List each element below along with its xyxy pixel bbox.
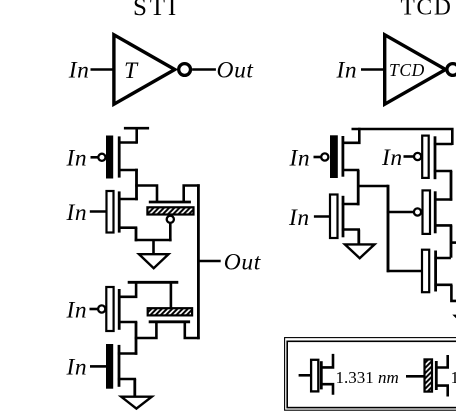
bubble QF1 gate <box>167 216 174 223</box>
svg-text:TCD: TCD <box>389 60 425 80</box>
transistor Q9 (thin-gate, TCD stack bottom) <box>422 250 452 293</box>
svg-text:Out: Out <box>217 58 254 84</box>
svg-text:In: In <box>66 146 88 172</box>
power rail VDD2 <box>352 129 453 145</box>
wire Q3 source up <box>119 281 136 297</box>
wire node N1 (Q1 drain to Q2 source) <box>135 169 138 201</box>
wire T5 source up <box>342 128 360 143</box>
op-amp U1 inverter triangle (STI) <box>114 35 175 104</box>
wire QF2 gate stub <box>170 281 173 309</box>
bubble Q8 gate <box>414 208 421 215</box>
wire In to Q3 <box>90 308 99 311</box>
wire FB1 right terminal <box>184 186 200 202</box>
wire In to Q4 <box>90 365 106 368</box>
bubble Q7 gate <box>414 153 421 160</box>
transistor QF2 hatched gate bar <box>148 308 192 315</box>
wire Q6 drain down <box>357 230 360 246</box>
svg-text:In: In <box>288 205 310 231</box>
wire ground drop <box>152 240 155 255</box>
bubble Q5 gate <box>321 153 328 160</box>
transistor L1 (legend, thin-gate) <box>299 354 333 395</box>
wire Q2 drain down <box>135 228 138 242</box>
transistor QF1 channel (feedback, horizontal) <box>149 201 191 204</box>
transistor Q1 (thick-gate PMOS, STI top) <box>106 136 138 179</box>
wire midnode branch <box>357 185 388 188</box>
wire QF2 left terminal <box>135 321 157 339</box>
wire rail node N3 (bottom half top rail) <box>128 281 179 284</box>
svg-text:T: T <box>124 58 139 84</box>
svg-text:Out: Out <box>224 249 261 275</box>
power rail VDD1 bar <box>124 127 149 130</box>
wire U2 input <box>361 68 386 71</box>
wire U1 input <box>91 68 116 71</box>
wire ground node N2 <box>135 239 172 242</box>
svg-text:In: In <box>289 145 311 171</box>
wire Q8 drain to Q9 source <box>450 225 453 257</box>
wire VDD1 stub <box>135 127 138 144</box>
bubble U1 output <box>179 64 191 76</box>
transistor QF2 channel (feedback 2, horizontal) <box>149 320 190 323</box>
legend box inner frame <box>287 341 456 407</box>
svg-text:In: In <box>68 58 90 84</box>
wire to Q8 gate <box>387 211 414 214</box>
transistor Q6 (thin-gate, TCD) <box>330 195 360 239</box>
wire In to Q5 <box>314 156 322 159</box>
transistor Q4 (thick-gate NMOS, STI bottom) <box>106 344 137 389</box>
svg-text:In: In <box>381 145 403 171</box>
svg-text:TCD: TCD <box>400 0 452 21</box>
svg-text:1.9: 1.9 <box>451 368 456 387</box>
wire In to Q6 <box>314 215 330 218</box>
wire to Q9 gate <box>387 270 422 273</box>
transistor Q5 (thick-gate PMOS, TCD) <box>330 135 359 178</box>
bubble Q1 gate <box>98 154 105 161</box>
transistor L2 (legend, hatched-gate) <box>406 355 448 397</box>
ground GND3 <box>345 244 375 258</box>
wire Out tap (TCD) <box>451 241 456 244</box>
svg-text:In: In <box>336 58 358 84</box>
svg-text:STI: STI <box>133 0 179 21</box>
svg-text:In: In <box>66 200 88 226</box>
wire QF2 right terminal <box>185 321 200 339</box>
ground GND4 (partial, clipped) <box>452 315 456 319</box>
legend box outer frame <box>285 338 456 411</box>
wire In to Q7 <box>404 155 415 158</box>
wire Out tap <box>198 260 220 263</box>
ground GND2 <box>121 397 152 409</box>
wire midnode vertical N5 <box>387 185 390 273</box>
wire U1 output <box>192 68 216 71</box>
wire In to Q2 <box>90 210 107 213</box>
wire node N4 (Q3 drain to Q4 source) <box>135 322 138 355</box>
wire Out rail <box>197 184 200 339</box>
wire Q7 drain to Q8 source <box>450 171 453 201</box>
wire node N5 (Q5 drain to Q6 source) <box>357 170 360 205</box>
transistor Q3 (thin-gate with bubble, STI lower PMOS) <box>106 287 137 331</box>
transistor Q7 (thin-gate, TCD stack top) <box>422 136 452 180</box>
svg-text:In: In <box>66 355 88 381</box>
wire QF1 gate stub <box>169 223 172 241</box>
bubble Q3 gate <box>98 305 105 312</box>
transistor Q2 (thin-gate, STI upper NMOS) <box>107 191 138 233</box>
wire Q9 drain down <box>451 285 456 301</box>
svg-text:In: In <box>66 297 88 323</box>
ground GND1 <box>139 254 169 268</box>
svg-text:1.331 nm: 1.331 nm <box>336 368 399 387</box>
wire FB1 left terminal <box>135 186 157 202</box>
wire In to Q1 <box>91 156 99 159</box>
wire Q4 drain down <box>133 379 136 397</box>
bubble U2 output <box>447 64 456 76</box>
op-amp U2 inverter triangle (TCD) <box>385 35 446 104</box>
transistor QF1 hatched gate bar <box>147 207 193 214</box>
transistor Q8 (thin-gate, TCD stack middle) <box>423 190 453 234</box>
